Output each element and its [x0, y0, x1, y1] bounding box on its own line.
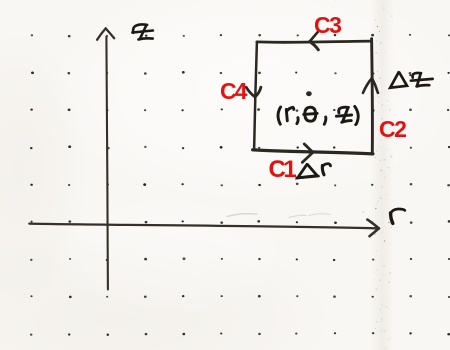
axis z arrowhead — [97, 28, 114, 39]
axis r handwritten label "r" — [391, 209, 405, 224]
axis z handwritten label "z" — [132, 24, 153, 39]
scan streak (vertical smudge near x=382) — [370, 0, 394, 350]
axis z shaft — [106, 37, 108, 290]
contour square: left edge (C4 side) — [254, 42, 257, 150]
contour square: top edge (C3 side) — [257, 41, 372, 42]
contour square: right edge (C2 side) — [370, 39, 374, 154]
axis r shaft — [29, 224, 376, 229]
arrow on C1 (bottom edge, pointing right) — [302, 144, 313, 162]
axis r arrowhead — [367, 220, 379, 237]
small dot between delta and z — [409, 74, 411, 76]
contour square: bottom edge (C1 side) — [253, 150, 373, 154]
svg-text:C1: C1 — [269, 156, 297, 183]
stray speckles — [362, 26, 390, 242]
arrow on C4 (left edge, pointing down) — [246, 87, 261, 97]
center label "(r,theta,z)" handwritten — [278, 106, 358, 124]
label "delta r" handwritten — [297, 164, 331, 178]
svg-text:C2: C2 — [379, 116, 406, 142]
svg-text:C3: C3 — [314, 12, 341, 38]
arrow on C3 (top edge, pointing left) — [310, 32, 319, 50]
smudge marks above r-axis — [227, 214, 330, 218]
arrow on C2 (right edge, pointing up) — [363, 78, 378, 93]
label "delta z" handwritten — [390, 72, 432, 87]
center point dot — [306, 91, 312, 96]
svg-text:C4: C4 — [220, 78, 248, 104]
